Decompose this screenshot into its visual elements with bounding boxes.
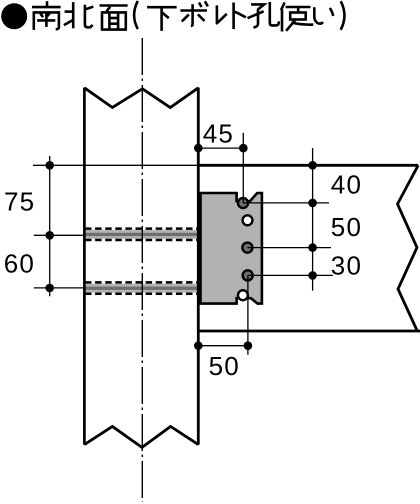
katakana ト xyxy=(234,3,246,30)
right chain dot at bolt B1 level xyxy=(308,199,317,208)
kanji 南 xyxy=(32,1,61,30)
45 dim dot left xyxy=(194,144,203,153)
left dimension chain line xyxy=(49,156,51,296)
beam right break line xyxy=(398,165,419,331)
svg-text:45: 45 xyxy=(203,118,234,148)
svg-text:50: 50 xyxy=(209,351,240,381)
left tick at bolt band 1 center xyxy=(34,234,85,236)
beam bottom edge xyxy=(197,330,420,333)
hidden bolt band 2 shank stripe xyxy=(86,287,199,290)
45 extension line down to bolt B1 xyxy=(242,133,244,203)
hidden bolt band 1 dashed outlines xyxy=(85,227,199,230)
fullwidth open paren xyxy=(134,1,138,29)
left chain dot top xyxy=(45,161,54,170)
right chain dot at bolt B4 level xyxy=(308,271,317,280)
hidden bolt band 2 dashed outlines xyxy=(85,281,199,284)
bottom dim dot right xyxy=(244,341,253,350)
beam top edge xyxy=(197,164,418,167)
bottom extension line from bolt B4 down xyxy=(247,275,249,354)
kanji 孔 xyxy=(248,2,279,28)
bracket plate (gusset with top/bottom slots) xyxy=(201,193,262,304)
extension line from bolt B3 xyxy=(247,247,331,249)
hiragana い xyxy=(314,7,333,23)
svg-text:30: 30 xyxy=(331,250,362,280)
title bullet xyxy=(1,3,27,29)
post bottom break line xyxy=(84,427,198,448)
empty hole H2 xyxy=(243,215,253,225)
kanji 面 xyxy=(100,6,128,30)
title text 南北面（下ボルト孔使い） hand-drawn strokes xyxy=(32,1,344,32)
post right edge xyxy=(197,88,200,445)
post top break line xyxy=(84,88,198,108)
right dimension chain line xyxy=(312,148,314,291)
fullwidth close paren xyxy=(341,1,345,30)
hidden bolt band 1 shank stripe xyxy=(86,233,199,236)
bottom dim dot left xyxy=(194,341,203,350)
kanji 北 xyxy=(64,2,93,28)
svg-text:75: 75 xyxy=(4,186,35,216)
right chain dot on beam top edge xyxy=(308,161,317,170)
bottom 50 dimension line xyxy=(198,345,248,347)
beam top edge extension line (thin, crosses post) xyxy=(33,164,198,166)
bolt B4 (installed) xyxy=(243,270,253,280)
extension line from bolt B1 xyxy=(243,202,329,204)
bolt B1 (in top slot, installed) xyxy=(238,198,248,208)
post centerline (dash-dot) xyxy=(141,38,143,502)
kanji 下 xyxy=(147,7,177,31)
hidden bolt band 1 through post (gray fill) xyxy=(85,229,199,240)
katakana ボ xyxy=(180,1,207,26)
post left edge xyxy=(83,88,86,445)
katakana ル (drawn as in source) xyxy=(217,5,227,23)
left tick at bolt band 2 center xyxy=(34,287,85,289)
kanji 使 xyxy=(281,3,313,32)
right chain dot at bolt B3 level xyxy=(308,243,317,252)
left chain dot bottom xyxy=(45,284,54,293)
extension line from bolt B4 xyxy=(248,274,333,276)
hidden bolt band 2 through post (gray fill) xyxy=(85,282,199,293)
45 dimension line xyxy=(198,147,243,149)
svg-text:50: 50 xyxy=(331,212,362,242)
45 dim dot right xyxy=(239,144,248,153)
empty hole H5 (in bottom slot) xyxy=(238,290,248,300)
svg-text:60: 60 xyxy=(4,249,35,279)
svg-text:40: 40 xyxy=(331,170,362,200)
bolt B3 (installed) xyxy=(242,243,252,253)
left chain dot middle xyxy=(45,231,54,240)
